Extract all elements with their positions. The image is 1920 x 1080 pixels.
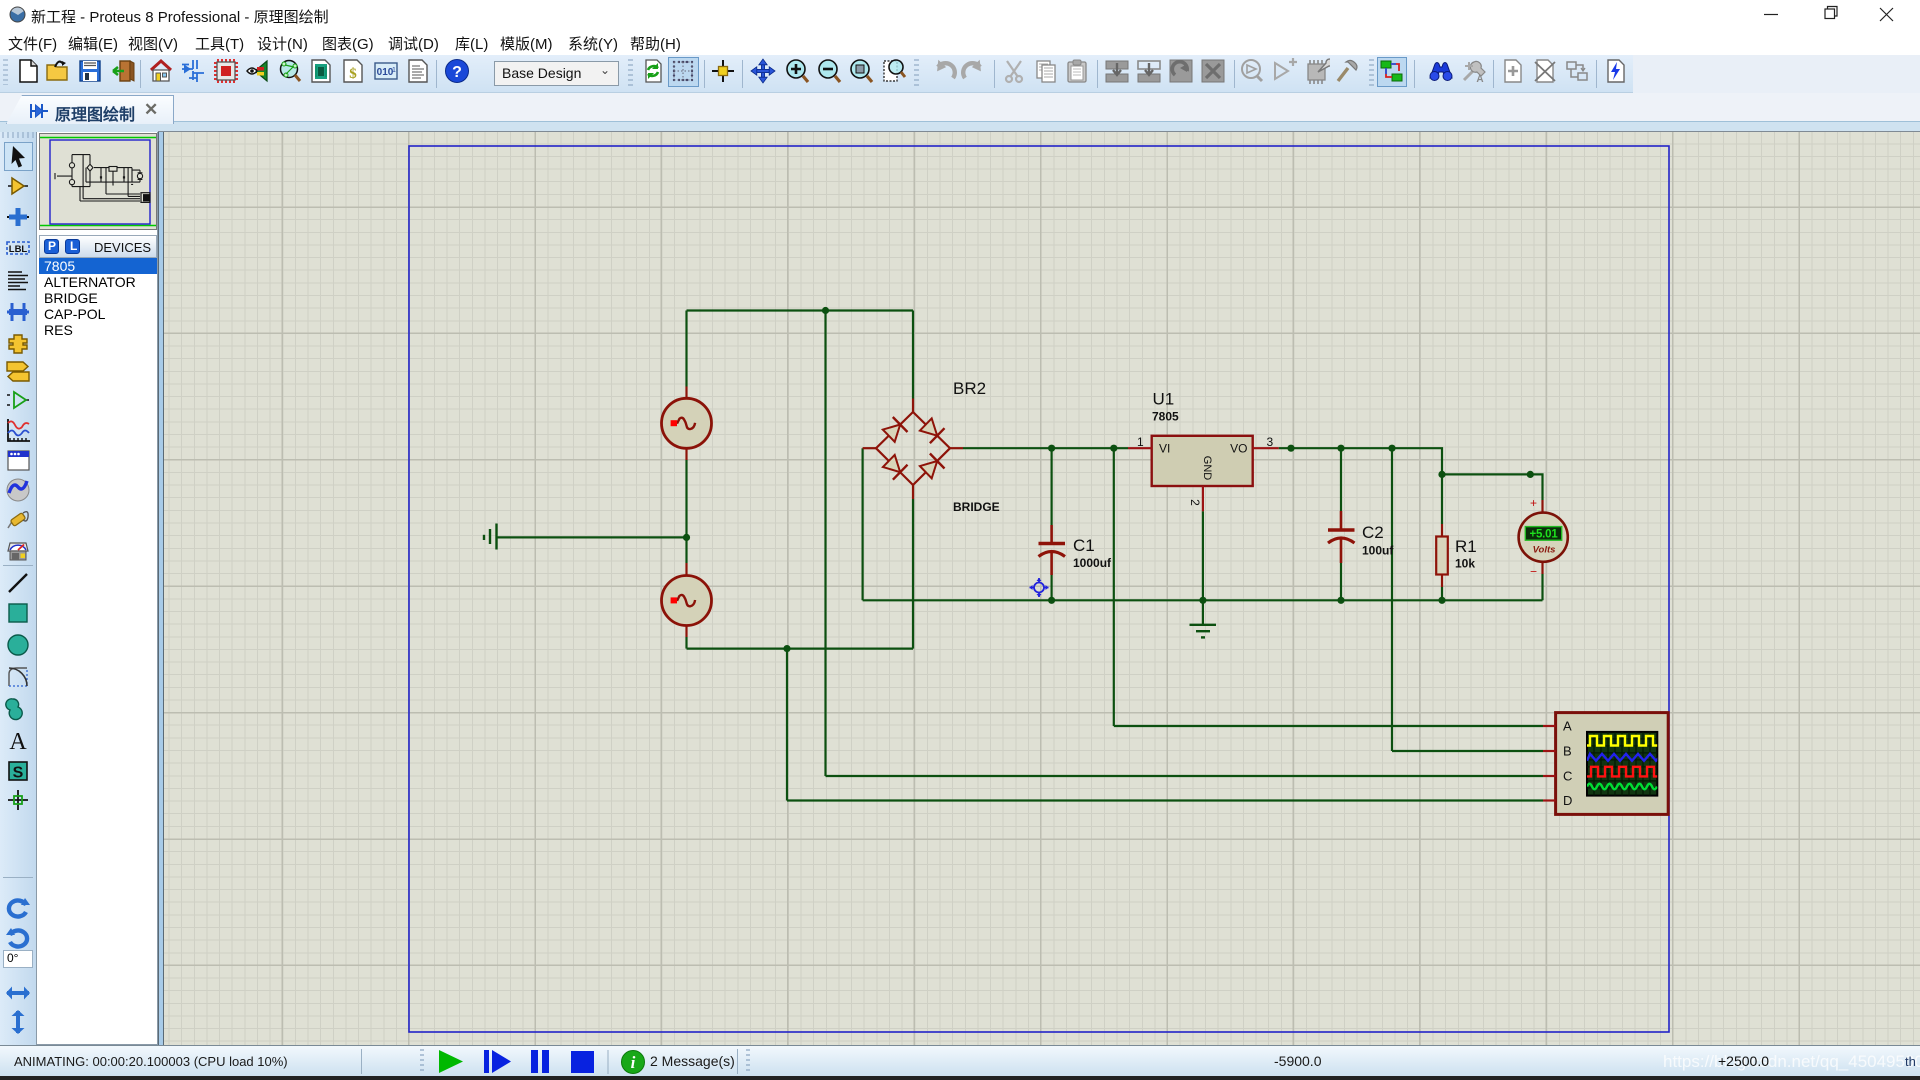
capacitor C1 [1039,525,1113,575]
wire alternator V1 bottom to center node [685,460,687,537]
wire C1 top lead [1050,448,1052,525]
svg-text:3: 3 [1267,435,1274,449]
side panel [36,132,158,1045]
title bar [0,0,1920,28]
wire scope channel A vertical [1113,448,1115,726]
svg-text:2: 2 [1188,499,1202,506]
svg-text:B: B [1563,744,1572,759]
svg-text:D: D [1563,793,1572,808]
trace D green [1587,784,1657,790]
label C1 [1073,536,1095,555]
label BR2 [953,379,986,398]
svg-text:?: ? [452,64,462,81]
wire scope channel D vertical [786,649,788,801]
node C2 ground [1337,597,1344,604]
node C2 top [1337,445,1344,452]
wire voltmeter branch [1442,474,1543,500]
wire bridge top lead [912,311,914,399]
wire VI input rail [963,447,1128,449]
svg-text:LBL: LBL [9,244,28,255]
wire bridge bottom lead [912,499,914,649]
svg-text:C1: C1 [1073,536,1095,555]
svg-text:A: A [1476,74,1483,84]
node R1 top branch [1438,471,1445,478]
wire C1 bottom lead [1050,575,1052,600]
svg-text:$: $ [349,66,357,82]
node VO pin junction [1287,445,1294,452]
svg-text:7805: 7805 [1152,410,1179,424]
trace C red [1587,767,1657,777]
voltmeter [1519,496,1568,579]
node R1 ground [1438,597,1445,604]
svg-text:i: i [631,1053,636,1072]
menu bar [0,28,1920,55]
wire scope channel A horizontal [1114,725,1543,727]
tab strip [0,93,1920,132]
svg-text:VI: VI [1159,442,1170,456]
cursor crosshair [1030,578,1049,597]
svg-text:GND: GND [1201,456,1213,481]
status bar [0,1045,1920,1076]
wire bridge minus output down [861,448,863,600]
node U1 ground [1199,597,1206,604]
sheet border [409,146,1669,1032]
bridge rectifier BR2 [863,379,1000,514]
wire bottom AC return [687,647,914,649]
svg-text:A: A [1563,719,1572,734]
wire alternator V2 bottom lead [685,637,687,649]
node scope A tap [1110,445,1117,452]
node scope D tap [783,645,790,652]
label U1 [1153,390,1175,409]
alternator V1 [662,387,712,461]
node center tap [683,534,690,541]
label R1 [1455,537,1477,556]
ground (below U1) [1190,625,1217,638]
value 7805 [1152,410,1179,424]
svg-text:1: 1 [392,67,396,74]
resistor R1 [1436,524,1477,587]
svg-text:BRIDGE: BRIDGE [953,500,1000,514]
wire top rail [687,309,914,311]
svg-text:A: A [9,729,27,753]
node C1 ground [1048,597,1055,604]
value 10k [1455,557,1475,571]
node C1 top [1048,445,1055,452]
canvas [164,132,1920,1045]
label C2 [1362,523,1384,542]
wire alternator V1 top lead [685,311,687,387]
wire R1 bottom lead [1441,587,1443,600]
svg-text:BR2: BR2 [953,379,986,398]
svg-text:1000uf: 1000uf [1073,556,1112,570]
value BRIDGE [953,500,1000,514]
regulator U1 7805 [1128,390,1279,512]
wire alternator V2 top lead [685,537,687,563]
capacitor C2 [1328,511,1394,563]
wire ground rail [863,599,1543,601]
ground (left, rotated) [484,524,497,550]
pin number 1 [1137,435,1144,449]
oscilloscope [1543,713,1668,815]
svg-text:S: S [13,765,24,782]
diode D2 (top to right) [920,418,945,443]
svg-text:100uf: 100uf [1362,544,1394,558]
wire scope channel B vertical [1391,448,1393,751]
svg-text:+5.01: +5.01 [1529,529,1558,541]
svg-text:1: 1 [1137,435,1144,449]
svg-text:Volts: Volts [1533,545,1556,556]
svg-text:+: + [1530,496,1537,510]
scope screen [1587,732,1657,796]
wire scope channel C horizontal [826,775,1544,777]
diode D4 (bottom to right) [920,454,945,479]
svg-text:R1: R1 [1455,537,1477,556]
svg-text:−: − [1530,565,1537,579]
wire VO output rail [1279,448,1442,524]
pin number 2 [1188,499,1202,506]
node scope B tap [1388,445,1395,452]
trace A yellow [1587,736,1657,746]
svg-text:VO: VO [1230,442,1247,456]
wire scope channel B horizontal [1392,750,1543,752]
wire ground terminal to center node [497,536,687,538]
junction dots [683,307,1534,652]
toolbar [0,55,1920,93]
value 100uf [1362,544,1394,558]
wire scope channel C tap vertical [824,311,826,777]
diode D1 (left to top) [883,417,908,442]
wire voltmeter bottom lead [1541,574,1543,600]
wire scope channel D horizontal [787,799,1543,801]
node voltmeter top branch [1527,471,1534,478]
left strip [0,132,36,1045]
alternator V2 [662,563,712,637]
node scope C tap [822,307,829,314]
wire U1 ground pin down [1202,511,1204,625]
pin number 3 [1267,435,1274,449]
svg-text:10k: 10k [1455,557,1475,571]
wire C2 bottom lead [1340,563,1342,600]
diode D3 (left to bottom) [883,455,908,480]
svg-text:C2: C2 [1362,523,1384,542]
value 1000uf [1073,556,1112,570]
svg-text:U1: U1 [1153,390,1175,409]
svg-text:C: C [1563,769,1572,784]
trace B blue [1587,754,1661,761]
wire C2 top lead [1340,448,1342,511]
